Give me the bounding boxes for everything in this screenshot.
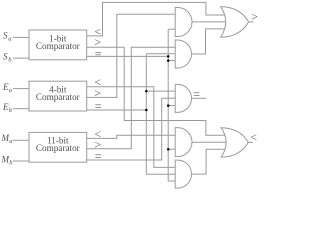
svg-text:>: > <box>94 86 101 100</box>
wire AND1 output to OR1 input2 <box>192 21 226 23</box>
wire B1 lt output to OR1 input1 <box>87 2 225 36</box>
junction dot bus/AND2in3 <box>167 59 170 62</box>
comparator block B3 (11-bit) <box>29 132 87 162</box>
wire Sb input <box>13 57 29 59</box>
svg-text:M: M <box>1 133 10 143</box>
wire B3 lt output to AND4 input1 <box>87 135 176 138</box>
wire AND4 output to OR2 input2 <box>192 141 226 143</box>
wire AND2 input3 stub <box>168 60 175 62</box>
svg-text:=: = <box>95 46 102 60</box>
wire AND5 input2 stub <box>146 173 175 175</box>
svg-text:=: = <box>193 87 200 101</box>
wire B1 eq output <box>87 55 169 57</box>
wire B1 gt output to OR2 input1 <box>87 47 225 135</box>
wire OR1 output <box>249 21 254 23</box>
svg-text:b: b <box>9 160 13 167</box>
svg-text:<: < <box>250 130 257 144</box>
and-gate U3 <box>175 84 191 112</box>
wire B3 eq output to AND3 input2 <box>87 98 176 160</box>
wire B2 gt output to AND1 input1 <box>87 14 176 97</box>
wire AND1 input2 stub <box>168 28 175 30</box>
wire B3 gt output to AND2 input1 <box>87 47 176 149</box>
wire B2 eq riser <box>145 54 147 174</box>
svg-text:>: > <box>251 9 258 23</box>
svg-text:a: a <box>8 36 11 43</box>
wire B2 lt output to AND5 input1 <box>87 87 176 168</box>
junction dot bus/AND3in3 <box>167 104 170 107</box>
wire AND5 input3 stub <box>168 180 175 182</box>
wire B2 eq output <box>87 109 147 111</box>
and-gate U2 <box>175 40 191 68</box>
wire Eb input <box>13 108 29 110</box>
junction dot B2eq riser lower <box>145 109 148 112</box>
wire eq bus vertical <box>167 29 169 181</box>
svg-text:Comparator: Comparator <box>36 143 80 153</box>
wire Ma input <box>13 139 29 141</box>
or-gate U6 <box>221 7 249 38</box>
wire OR2 output <box>248 141 253 143</box>
svg-text:Comparator: Comparator <box>36 92 80 102</box>
and-gate U5 <box>175 160 191 188</box>
wire AND2 output to OR1 input3 <box>192 29 225 54</box>
junction dot B1eq/bus <box>167 55 170 58</box>
and-gate U1 <box>175 7 192 36</box>
wire Mb input <box>13 160 29 162</box>
svg-text:Comparator: Comparator <box>36 41 80 51</box>
svg-text:a: a <box>9 87 12 94</box>
svg-text:S: S <box>3 31 8 41</box>
or-gate U7 <box>221 128 248 157</box>
wire AND3 input1 stub <box>146 90 175 92</box>
wire AND5 output to OR2 input3 <box>192 149 225 174</box>
comparator block B2 (4-bit) <box>29 81 87 111</box>
wire AND3 input3 stub <box>168 105 175 107</box>
svg-text:M: M <box>1 155 10 165</box>
wire Sa input <box>13 36 29 38</box>
svg-text:a: a <box>9 138 12 145</box>
junction dot B2eq riser upper <box>145 90 148 93</box>
svg-text:b: b <box>9 107 13 114</box>
junction dot bus/AND4in2 <box>167 148 170 151</box>
comparator block B1 (1-bit) <box>29 30 87 60</box>
and-gate U4 <box>175 128 192 157</box>
wire Ea input <box>13 88 29 90</box>
svg-text:S: S <box>3 51 8 61</box>
svg-text:b: b <box>8 56 12 63</box>
wire AND3 output (equal) <box>192 97 206 99</box>
wire AND2 input2 stub <box>146 53 175 55</box>
svg-text:=: = <box>95 149 102 163</box>
wire AND4 input2 stub <box>168 148 175 150</box>
svg-text:=: = <box>95 99 102 113</box>
